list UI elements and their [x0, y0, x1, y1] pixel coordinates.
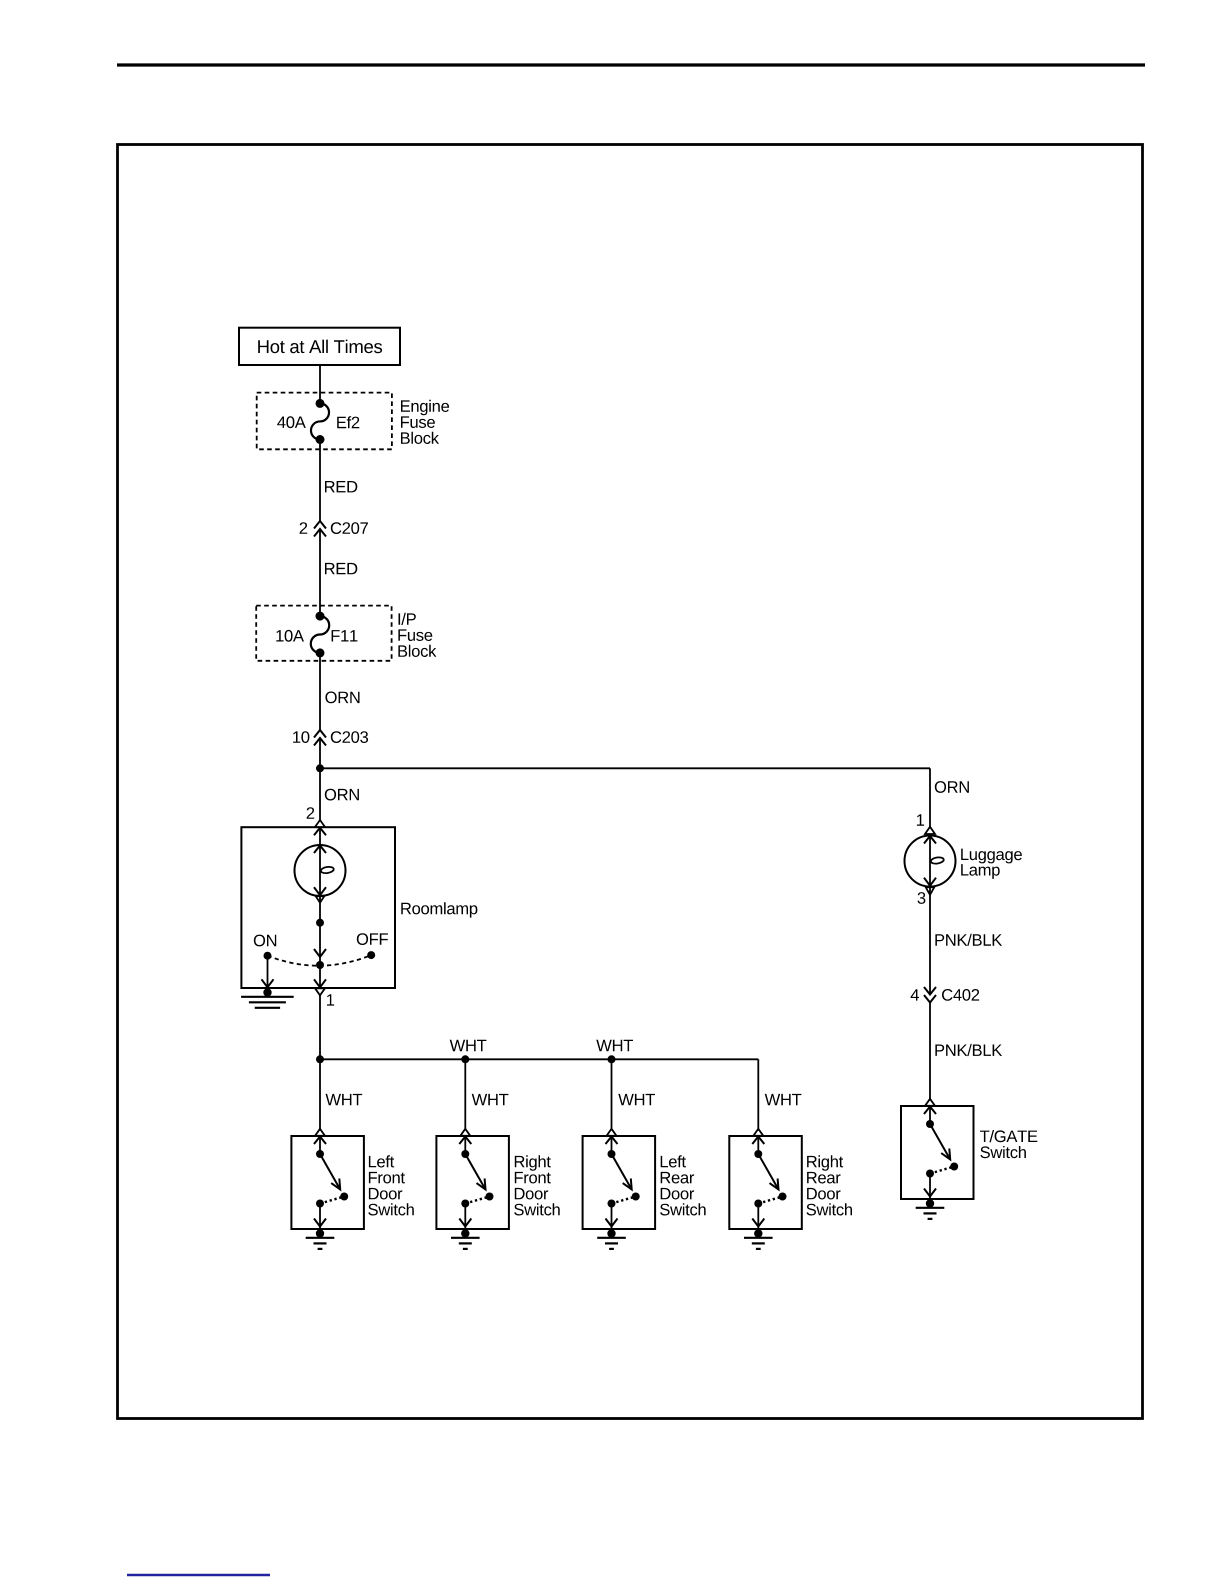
engine fuse block dashed box [257, 393, 392, 450]
wire label ORN upper [325, 692, 359, 704]
connector C203 pin 10 [314, 730, 326, 738]
bus node left rear [608, 1055, 616, 1063]
roomlamp bulb exit [316, 896, 325, 902]
footer link underline [127, 1574, 270, 1576]
label right rear door switch [807, 1155, 843, 1170]
roomlamp ground node [263, 988, 271, 996]
label Luggage Lamp [961, 849, 1022, 864]
wire fuse Ef2 to connector C207 [319, 440, 321, 522]
bus node right front [461, 1055, 469, 1063]
IP fuse block dashed box [256, 606, 391, 661]
roomlamp pin 2 entry [315, 820, 325, 827]
junction node [316, 764, 324, 772]
right front door switch contacts [460, 1129, 470, 1136]
label ON [254, 935, 276, 947]
wire roomlamp lamp to pin 1 [319, 965, 321, 987]
wire label WHT bus 1 [450, 1040, 487, 1051]
connector C402 pin 4 [924, 995, 936, 1003]
tgate switch box [901, 1106, 974, 1199]
power source box Hot at All Times [239, 328, 400, 365]
label I/P Fuse Block [399, 613, 416, 625]
door bus junction node [316, 1055, 324, 1063]
luggage lamp bulb [905, 836, 956, 887]
diagram border frame [118, 145, 1143, 1419]
wire label RED lower [325, 563, 357, 574]
wire label WHT drop 3 [618, 1094, 655, 1105]
label T/GATE Switch [980, 1130, 1037, 1142]
roomlamp feed node [316, 919, 324, 927]
label Roomlamp [401, 902, 477, 917]
wire power box to fuse Ef2 [319, 365, 321, 403]
wire entry to lamp [319, 827, 321, 845]
wire fuse F11 to connector C203 [319, 653, 321, 730]
fuse Ef2 40A [316, 399, 325, 408]
roomlamp switch dashed travel [268, 955, 372, 966]
luggage lamp pin 1 entry [925, 827, 935, 834]
roomlamp ground [241, 996, 294, 998]
value label 10A [276, 630, 304, 642]
connector C207 pin 2 [314, 521, 326, 529]
right rear door switch box [729, 1136, 802, 1229]
left front door switch contacts [315, 1129, 325, 1136]
wire label WHT bus 2 [596, 1040, 633, 1051]
right rear door switch contacts [753, 1129, 763, 1136]
roomlamp pin 1 exit [314, 979, 326, 987]
wire label WHT drop 2 [472, 1094, 509, 1105]
left front door switch box [291, 1136, 364, 1229]
contact ON [264, 952, 272, 960]
wire junction to luggage branch [320, 767, 930, 769]
door bus wire [320, 1058, 758, 1060]
wire label RED upper [325, 481, 357, 492]
wire C402 to tgate switch [929, 1003, 931, 1099]
label Engine Fuse Block [401, 400, 449, 415]
right front door switch box [436, 1136, 509, 1229]
wire C207 to fuse F11 [319, 530, 321, 617]
wire label WHT drop 1 [326, 1094, 363, 1105]
wire drop right front door switch [464, 1059, 466, 1129]
wire label WHT drop 4 [765, 1094, 802, 1105]
roomlamp wire arrow [314, 949, 326, 957]
wire label ORN luggage [935, 781, 969, 793]
wire luggage lamp to C402 [929, 887, 931, 995]
wire roomlamp to door bus [319, 995, 321, 1129]
label OFF [357, 933, 388, 945]
wire ON contact to ground [267, 956, 269, 987]
roomlamp pin 2 label [307, 807, 315, 819]
left rear door switch contacts [607, 1129, 617, 1136]
wire label PNK/BLK lower [935, 1044, 1002, 1056]
top horizontal rule [117, 63, 1145, 66]
luggage lamp exit [926, 887, 935, 895]
designator Ef2 [337, 416, 359, 428]
left rear door switch box [583, 1136, 656, 1229]
wire drop left rear door switch [611, 1059, 613, 1129]
designator F11 [332, 630, 358, 641]
wire label ORN to roomlamp [325, 789, 359, 801]
label right front door switch [515, 1155, 551, 1170]
luggage lamp pin 1 label [917, 814, 924, 825]
tgate switch contacts [925, 1099, 935, 1106]
label left front door switch [369, 1155, 394, 1167]
luggage lamp pin 3 label [918, 892, 926, 904]
wire junction to roomlamp [319, 768, 321, 820]
roomlamp bulb [295, 845, 346, 896]
roomlamp pin 1 label [327, 994, 334, 1005]
contact OFF [367, 951, 375, 959]
label left rear door switch [661, 1155, 686, 1167]
roomlamp switch common [316, 961, 324, 969]
wire C203 to junction [319, 739, 321, 769]
wire label PNK/BLK upper [935, 934, 1002, 946]
value label 40A [277, 416, 306, 428]
roomlamp box [241, 827, 395, 988]
wire drop right rear door switch [757, 1059, 759, 1129]
fuse F11 10A [316, 612, 325, 621]
